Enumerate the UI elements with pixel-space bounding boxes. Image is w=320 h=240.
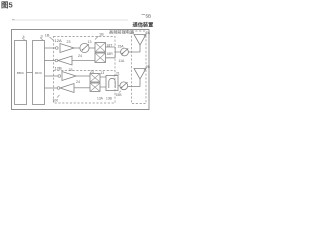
label 12B — [55, 65, 62, 70]
wire switch 15A to antenna 2A — [128, 51, 140, 53]
svg-text:100: 100 — [53, 99, 59, 103]
figure caption 图5 — [1, 1, 13, 10]
label 11A — [119, 59, 126, 63]
wire RFIC to PA 23B — [45, 75, 58, 77]
label 15B — [116, 91, 123, 97]
antenna switch 15A — [121, 48, 129, 56]
wire LNA to RFIC — [45, 60, 56, 62]
wire BBIC-RFIC — [27, 72, 33, 74]
label 13 lower — [101, 71, 105, 75]
svg-text:13A: 13A — [97, 97, 104, 101]
low noise amplifier 24B — [60, 84, 74, 93]
filter 61T — [90, 74, 100, 83]
label 23B — [69, 68, 73, 72]
label 2A — [144, 31, 151, 36]
port node circle — [55, 59, 58, 62]
label 23 — [67, 40, 71, 44]
wires filters to matching box — [100, 77, 106, 87]
label 4 — [22, 35, 25, 41]
svg-text:12B: 12B — [55, 65, 62, 70]
svg-text:13B: 13B — [106, 97, 113, 101]
port node circle — [58, 75, 61, 78]
label 15A — [118, 44, 125, 48]
svg-text:24: 24 — [78, 54, 82, 58]
low noise amplifier 24A — [58, 56, 72, 65]
text 通信装置 — [133, 20, 154, 28]
outer communication-device box — [12, 30, 150, 110]
port node circle — [56, 47, 59, 50]
RFIC 3 — [33, 41, 45, 105]
label 5B (communication device) — [141, 15, 145, 28]
svg-text:21: 21 — [116, 72, 120, 76]
scan artifact line — [12, 19, 128, 22]
antenna 2B — [134, 69, 146, 87]
matching box 21 — [106, 76, 118, 91]
svg-text:通信装置: 通信装置 — [133, 20, 154, 28]
module dashed box 1B — [54, 37, 116, 104]
power amplifier 23A — [60, 44, 74, 53]
svg-text:BBIC: BBIC — [17, 71, 25, 75]
svg-text:5B: 5B — [146, 14, 152, 19]
wire filter 18R to LNA — [72, 60, 95, 62]
wire PA to switch 13 — [74, 47, 80, 49]
label 100 bottom — [53, 95, 60, 103]
svg-text:高频前端电路: 高频前端电路 — [109, 29, 135, 36]
text 高频前端电路 with label 1B — [109, 29, 135, 36]
svg-text:RFIC: RFIC — [35, 71, 43, 75]
antenna dashed box 2 — [132, 31, 147, 104]
svg-text:18R: 18R — [107, 52, 114, 56]
wire switch 15B to antenna 2B — [128, 86, 140, 88]
svg-text:11A: 11A — [119, 59, 126, 63]
svg-text:23: 23 — [67, 40, 71, 44]
label 1B upper-left leader — [45, 34, 54, 41]
label 21 — [114, 72, 120, 77]
label 2B — [144, 65, 151, 70]
svg-text:13: 13 — [88, 40, 92, 44]
svg-text:1B: 1B — [99, 33, 104, 37]
switch 13 — [80, 43, 89, 52]
svg-text:23: 23 — [69, 68, 73, 72]
label 24 — [78, 54, 82, 58]
filter 18R — [95, 53, 106, 63]
power amplifier 23B — [62, 72, 76, 81]
port node circle — [57, 87, 60, 90]
svg-text:2A: 2A — [146, 31, 151, 35]
wire switch 13 to filter 18T — [89, 47, 95, 49]
antenna 2A — [134, 35, 146, 53]
svg-text:15B: 15B — [116, 93, 123, 97]
label 13B — [106, 97, 113, 101]
wire RFIC to PA 23A — [45, 47, 56, 49]
svg-text:12A: 12A — [55, 38, 62, 43]
label 12A — [55, 38, 62, 43]
antenna switch 15B — [120, 82, 128, 90]
filter 61R — [90, 83, 100, 92]
wire filter outputs merge — [106, 47, 121, 58]
svg-text:13: 13 — [101, 71, 105, 75]
label 13 — [88, 40, 92, 44]
label 24B — [76, 80, 80, 84]
wire PA 23B to filter — [76, 75, 90, 77]
label 18R — [107, 52, 114, 56]
label 1B leader — [95, 33, 104, 40]
dashed divider between 12A and 12B — [54, 70, 116, 72]
svg-text:24: 24 — [76, 80, 80, 84]
svg-text:图5: 图5 — [1, 1, 13, 10]
labels above lower filters — [90, 70, 94, 74]
filter 18T — [95, 43, 106, 53]
svg-text:1B: 1B — [45, 34, 50, 38]
svg-text:23: 23 — [90, 70, 94, 74]
svg-text:2B: 2B — [146, 65, 151, 69]
wire matching box to switch 15B — [118, 85, 120, 87]
label 13A — [97, 97, 104, 101]
svg-text:15A: 15A — [118, 44, 125, 48]
wire LNA 24B to RFIC — [45, 87, 58, 89]
wire filter 61R to LNA 24B — [74, 87, 90, 89]
BBIC 4 — [15, 41, 27, 105]
label 3 — [40, 34, 43, 40]
label 18T — [107, 43, 113, 47]
